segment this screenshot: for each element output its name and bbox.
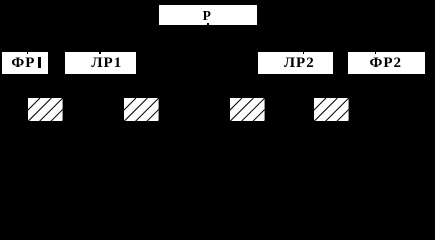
block FR1 ("ФРI") [2, 52, 48, 74]
hatched department box 4 [314, 98, 349, 121]
block FR2 ("ФР2") [348, 52, 425, 74]
wire tick above LR1 [99, 52, 101, 54]
wire tick above LR2 [303, 52, 305, 54]
wire tick below P [207, 23, 209, 25]
block LR2 ("ЛР2") [258, 52, 333, 74]
wire tick above FR2 [375, 52, 377, 54]
hatched department box 1 [28, 98, 63, 121]
hatched department box 2 [124, 98, 159, 121]
bar glyph of FR1 label [38, 57, 40, 68]
wire tick above FR1 [27, 52, 29, 54]
block P (root box "Р") [159, 5, 257, 25]
hatched department box 3 [230, 98, 265, 121]
block LR1 ("ЛР1") [65, 52, 136, 74]
